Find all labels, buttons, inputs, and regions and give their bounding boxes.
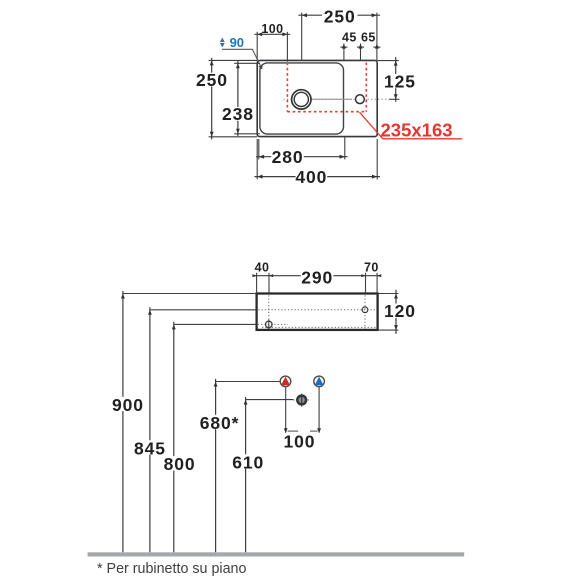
svg-text:235x163: 235x163	[381, 120, 453, 141]
svg-text:120: 120	[384, 301, 416, 321]
dimension 250 (left outer depth)	[196, 58, 257, 140]
svg-text:250: 250	[324, 7, 356, 27]
svg-text:280: 280	[272, 147, 304, 167]
dimension 800 (floor to drain)	[164, 322, 257, 553]
washbasin outer rim (plan)	[257, 60, 377, 136]
dimension 250 (top, drain center to right edge)	[298, 7, 380, 61]
svg-text:100: 100	[261, 22, 283, 36]
top dimension row 40 / 290 / 70	[252, 261, 381, 294]
svg-text:290: 290	[301, 268, 333, 288]
hot water supply symbol (red triangle in circle)	[280, 376, 291, 387]
dimension 280 (bottom inner width)	[256, 137, 348, 167]
dimension 45 / 65 markers (top right)	[340, 31, 380, 61]
svg-text:90: 90	[230, 35, 244, 50]
dimension 238 (left inner depth)	[222, 61, 260, 136]
dimension 120 (elevation height)	[378, 290, 416, 334]
dimension 900 (floor to rim)	[112, 291, 257, 552]
svg-text:845: 845	[134, 438, 166, 458]
floor line	[88, 552, 465, 556]
tap hole circle	[356, 95, 365, 104]
svg-text:40: 40	[255, 261, 270, 275]
dimension 125 (right, edge to hole center)	[377, 57, 416, 102]
svg-text:800: 800	[164, 454, 196, 474]
washbasin inner bowl (plan)	[260, 63, 344, 134]
svg-text:65: 65	[361, 31, 376, 45]
red leader + label 235x163	[360, 112, 463, 140]
svg-text:680*: 680*	[200, 413, 240, 433]
centerline solid segment between drain and tap	[312, 98, 352, 100]
svg-text:45: 45	[342, 31, 357, 45]
svg-text:* Per rubinetto su piano: * Per rubinetto su piano	[97, 561, 246, 577]
dimension 100 (between supplies)	[284, 387, 321, 451]
svg-text:100: 100	[284, 431, 316, 451]
dimension 100 (top left)	[254, 22, 290, 62]
drain hole (elevation, hidden)	[266, 320, 273, 330]
svg-text:610: 610	[232, 452, 264, 472]
dimension 845 (floor to tap hole)	[134, 307, 257, 552]
svg-text:238: 238	[222, 104, 254, 124]
hidden lines inside basin (dotted)	[258, 295, 376, 328]
depth label 90 (blue) with double-arrow icon	[220, 35, 244, 50]
svg-text:70: 70	[364, 261, 379, 275]
dimension 610 (floor to waste)	[232, 397, 293, 552]
cold water supply symbol (blue triangle in circle)	[314, 376, 325, 387]
svg-text:250: 250	[196, 70, 228, 90]
leader line for 90 to bowl edge	[222, 49, 263, 69]
svg-text:125: 125	[384, 71, 416, 91]
semi-recess cut-out red dashed outline 235x163	[287, 63, 366, 112]
drain hole (double circle)	[292, 90, 311, 109]
centerline through holes (dotted)	[284, 98, 392, 100]
waste / drain outlet symbol	[293, 394, 310, 407]
tap hole (elevation, hidden)	[362, 307, 368, 313]
svg-text:900: 900	[112, 395, 144, 415]
svg-text:400: 400	[295, 167, 327, 187]
dimension 400 (bottom outer width)	[254, 139, 380, 187]
basin body (elevation)	[257, 294, 378, 330]
dimension 680* (floor to water supplies)	[200, 379, 280, 552]
